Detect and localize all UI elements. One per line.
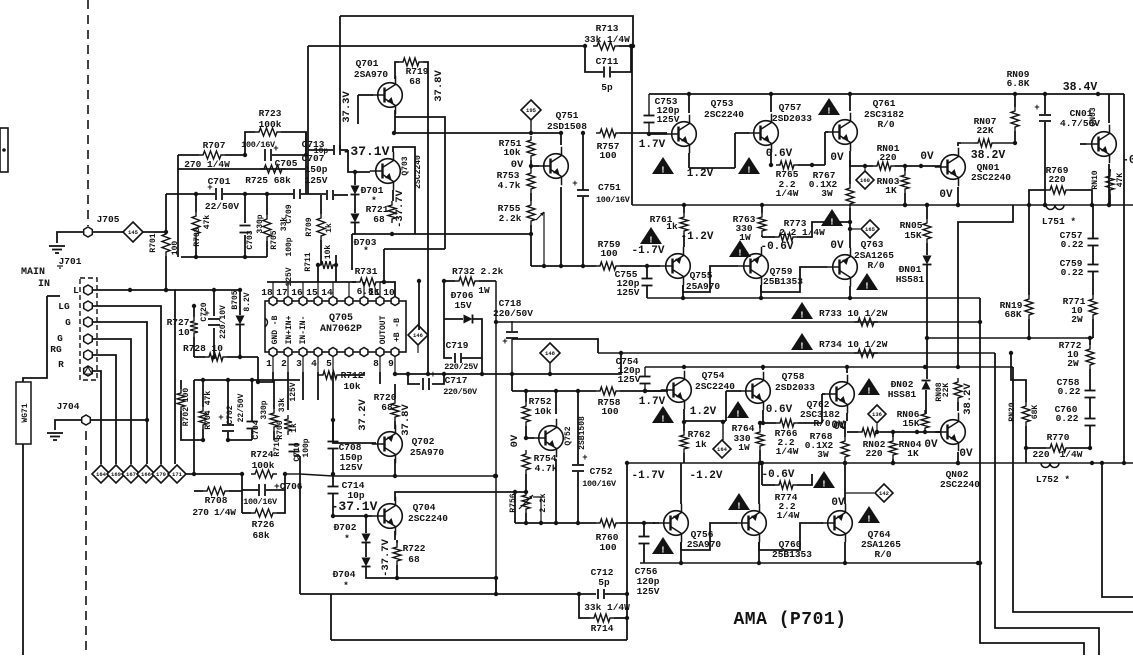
wire q704 bottom link xyxy=(495,578,497,594)
wire RN05 net xyxy=(925,203,929,255)
svg-text:+: + xyxy=(1034,103,1039,113)
svg-text:-37.1V: -37.1V xyxy=(331,499,378,514)
svg-text:15K: 15K xyxy=(904,230,921,241)
diode DN01 xyxy=(896,256,932,286)
svg-text:33k: 33k xyxy=(278,398,287,413)
warning triangle B2 xyxy=(727,401,749,420)
wire R-network right xyxy=(242,472,300,513)
svg-text:15V: 15V xyxy=(454,300,471,311)
wire pins bottom stubs xyxy=(273,356,395,374)
wire R762 net xyxy=(682,420,686,463)
wire net322 xyxy=(496,298,982,324)
svg-text:0V: 0V xyxy=(831,420,845,432)
wire Q763 emitter col xyxy=(848,286,852,300)
svg-text:C719: C719 xyxy=(446,340,469,351)
capacitor C752 xyxy=(572,453,617,489)
svg-text:47k: 47k xyxy=(203,215,212,230)
wire C712 right xyxy=(605,592,629,596)
wire mid rail 169 xyxy=(178,168,306,170)
svg-text:1K: 1K xyxy=(907,448,919,459)
node 146 xyxy=(408,325,428,353)
svg-text:0.22: 0.22 xyxy=(1056,413,1079,424)
wire Q754 collector xyxy=(683,367,685,369)
svg-text:125V: 125V xyxy=(340,462,363,473)
svg-text:R702 100: R702 100 xyxy=(182,388,191,427)
svg-text:15: 15 xyxy=(306,287,318,298)
capacitor C751 xyxy=(572,179,631,205)
svg-text:!: ! xyxy=(829,218,834,228)
capacitor C701 xyxy=(205,176,240,212)
transistor Q701 xyxy=(354,58,402,114)
wire CN01 net xyxy=(1043,95,1047,207)
wire R766 right xyxy=(798,422,822,424)
wire net298 xyxy=(647,296,980,300)
warning triangle A1 xyxy=(652,157,674,176)
wire R728 net xyxy=(194,356,258,358)
diode D702 xyxy=(334,522,371,544)
wire RN04 net xyxy=(891,432,895,465)
label 37.8V lower xyxy=(400,404,412,436)
svg-text:+B -B: +B -B xyxy=(393,318,402,342)
wire net594 left rise xyxy=(294,456,300,594)
wire RN10 net xyxy=(1109,169,1111,205)
resistor R728 xyxy=(183,343,227,361)
wire R771 net xyxy=(1092,319,1094,338)
svg-text:C752: C752 xyxy=(590,466,613,477)
resistor RN20 xyxy=(1008,402,1040,426)
svg-text:!: ! xyxy=(821,480,826,490)
pin R xyxy=(58,359,92,376)
node 195 xyxy=(521,100,541,133)
resistor R719 xyxy=(399,58,429,87)
resistor R726 xyxy=(251,509,277,541)
svg-text:IN: IN xyxy=(38,279,50,290)
label RN08 22K xyxy=(942,383,951,398)
svg-text:IN-IN-: IN-IN- xyxy=(299,316,308,345)
transistor Q703 xyxy=(370,152,423,191)
svg-text:1: 1 xyxy=(266,358,272,369)
wire Q764 collector xyxy=(843,542,847,565)
svg-text:R714: R714 xyxy=(591,623,614,634)
svg-text:37.8V: 37.8V xyxy=(400,404,412,436)
wire Q764 base xyxy=(759,523,823,550)
svg-text:220/50V: 220/50V xyxy=(443,387,478,397)
capacitor C713 xyxy=(302,139,340,156)
wire D702 col xyxy=(364,514,368,533)
wire rail 476 xyxy=(300,474,495,476)
svg-text:!: ! xyxy=(660,546,665,556)
warning triangle A3 xyxy=(818,98,840,117)
wire DN02 net xyxy=(925,390,927,414)
svg-text:1.2V: 1.2V xyxy=(690,406,717,418)
resistor R724 xyxy=(251,449,277,478)
svg-text:Q752: Q752 xyxy=(564,426,573,445)
capacitor C755 xyxy=(615,269,653,298)
svg-text:-1.7V: -1.7V xyxy=(631,470,664,482)
svg-text:220/25V: 220/25V xyxy=(444,362,479,372)
svg-text:+: + xyxy=(430,370,435,380)
wire left drop to R731 xyxy=(352,234,355,270)
resistor R754 xyxy=(522,450,558,474)
svg-text:169: 169 xyxy=(111,471,121,478)
svg-text:RG: RG xyxy=(50,344,62,355)
resistor RN02 xyxy=(858,428,886,459)
svg-text:68K: 68K xyxy=(1004,309,1021,320)
ground at J704 xyxy=(47,433,63,440)
wire dashed bus line lower xyxy=(85,431,87,655)
transistor Q760 xyxy=(736,504,813,560)
svg-text:C717: C717 xyxy=(445,375,468,386)
svg-text:22/50V: 22/50V xyxy=(205,201,240,212)
wire B705 net xyxy=(238,288,242,359)
label 1.7V upper xyxy=(639,139,666,151)
wire R774 net xyxy=(760,461,812,485)
resistor R734 xyxy=(819,339,888,357)
svg-text:Q753: Q753 xyxy=(711,98,734,109)
transistor Q752 xyxy=(533,416,587,457)
svg-text:!: ! xyxy=(735,410,740,420)
wire J704 right xyxy=(91,418,149,422)
svg-text:25B1353: 25B1353 xyxy=(763,276,803,287)
wire net339 xyxy=(512,339,598,353)
svg-text:+: + xyxy=(207,183,212,193)
wire Q762 base xyxy=(822,394,825,423)
wire C752 net xyxy=(576,391,580,525)
svg-text:GND -B: GND -B xyxy=(271,315,280,344)
wire J704 left xyxy=(55,420,81,430)
svg-text:-37.1V: -37.1V xyxy=(343,144,390,159)
diode B705 zener xyxy=(231,290,252,324)
svg-text:Q704: Q704 xyxy=(413,502,436,513)
wire Q704 collector xyxy=(395,490,528,501)
capacitor C753 xyxy=(644,94,680,136)
label 0V q751 xyxy=(511,159,524,171)
warning triangle B3 xyxy=(858,378,880,397)
svg-text:-1.2V: -1.2V xyxy=(689,470,722,482)
wire net338 xyxy=(927,336,1093,340)
wire right vert 1124 xyxy=(1123,94,1125,463)
warning triangle B4 xyxy=(652,537,674,556)
label 0V q762 xyxy=(833,421,847,433)
svg-text:171: 171 xyxy=(172,471,183,478)
svg-text:R: R xyxy=(58,359,64,370)
pin G xyxy=(65,317,92,328)
wire filter2 frame xyxy=(181,378,274,442)
wire DN01 bottom xyxy=(925,265,929,379)
svg-text:125V: 125V xyxy=(285,267,294,286)
warning triangle R733 xyxy=(791,302,813,321)
svg-text:J701: J701 xyxy=(59,256,82,267)
pin row top U705 xyxy=(261,287,399,306)
wire C709 right xyxy=(301,193,326,195)
wire C708 net xyxy=(331,420,335,476)
wire R714 loop xyxy=(579,594,629,620)
svg-text:!: ! xyxy=(746,166,751,176)
transistor Q753 xyxy=(666,98,745,153)
resistor RN09 xyxy=(1007,69,1030,131)
resistor R708 xyxy=(192,487,236,518)
warning triangle A4 xyxy=(640,227,662,246)
svg-text:142: 142 xyxy=(879,490,889,497)
wire R722 bot xyxy=(396,565,398,578)
svg-text:R708: R708 xyxy=(205,495,228,506)
svg-text:160: 160 xyxy=(860,177,870,184)
wire R761 net xyxy=(682,203,686,247)
svg-text:2SD2033: 2SD2033 xyxy=(775,382,815,393)
capacitor C756 xyxy=(635,537,660,598)
wire Q763 base xyxy=(761,267,827,292)
resistor R723 xyxy=(255,108,282,136)
resistor R760 xyxy=(596,519,620,553)
wire Q702 emitter xyxy=(393,459,397,478)
diode D703 xyxy=(351,214,377,257)
svg-text:145: 145 xyxy=(128,229,139,236)
label 125V pin3 xyxy=(289,382,298,401)
svg-text:47k: 47k xyxy=(204,391,213,406)
wire R768 net xyxy=(843,421,847,493)
node 169 xyxy=(107,465,125,483)
resistor R769 xyxy=(1046,165,1070,194)
svg-text:2SA970: 2SA970 xyxy=(687,539,722,550)
svg-text:68: 68 xyxy=(373,214,385,225)
pin row bottom U705 xyxy=(266,348,399,370)
wire off-page connector box xyxy=(0,128,8,172)
wire C714 net xyxy=(331,476,335,518)
label Q751 xyxy=(547,110,587,132)
wire feedback drop bottom xyxy=(625,461,629,640)
resistor R714 xyxy=(584,602,630,634)
svg-text:125V: 125V xyxy=(617,287,640,298)
node 170 xyxy=(152,465,170,483)
label 38.4V xyxy=(1063,81,1098,94)
svg-text:!: ! xyxy=(864,282,869,292)
transistor QN02 xyxy=(935,413,973,460)
resistor R767 xyxy=(809,170,854,208)
capacitor C711 xyxy=(596,56,619,93)
wire L stub xyxy=(47,295,60,297)
warning triangle B5 xyxy=(728,493,750,512)
wire Q762 collector xyxy=(846,367,848,373)
svg-text:2W: 2W xyxy=(1071,314,1083,325)
wire Q761 base xyxy=(825,132,828,165)
svg-text:68: 68 xyxy=(408,554,420,565)
label -0.7 right xyxy=(1122,154,1133,167)
warning triangle A6 xyxy=(821,209,843,228)
svg-text:4: 4 xyxy=(311,358,317,369)
wire jog under Q703 xyxy=(382,234,445,284)
svg-text:10p: 10p xyxy=(314,147,329,156)
wire C757 net xyxy=(1092,205,1094,264)
transistor Q761 xyxy=(827,98,905,151)
resistor R727 xyxy=(167,317,198,338)
svg-text:220: 220 xyxy=(879,152,896,163)
svg-text:!: ! xyxy=(866,515,871,525)
svg-text:146: 146 xyxy=(413,332,423,339)
wire Q704 box bottom xyxy=(366,567,495,580)
wire Q751 base xyxy=(531,165,539,167)
svg-text:R725 68k: R725 68k xyxy=(245,175,291,186)
svg-text:0V: 0V xyxy=(924,439,938,451)
svg-text:!: ! xyxy=(799,311,804,321)
wire R711 net xyxy=(318,255,336,282)
resistor R721 xyxy=(366,201,396,225)
wire C701 rail left xyxy=(164,194,168,234)
wire q702 base col xyxy=(331,372,376,443)
wire QN02 emitter xyxy=(956,452,960,465)
svg-text:R770: R770 xyxy=(1047,432,1070,443)
svg-text:10k: 10k xyxy=(534,406,551,417)
label 0V qn01 xyxy=(920,151,934,163)
svg-text:4.7k: 4.7k xyxy=(498,180,521,191)
wire C751 net xyxy=(581,133,585,268)
resistor RN19 xyxy=(1000,295,1033,320)
wire Q760 collector xyxy=(757,542,761,565)
resistor R709 xyxy=(305,214,334,240)
wire Q759 collector xyxy=(759,285,763,300)
resistor RN06 xyxy=(897,409,929,432)
svg-text:R706: R706 xyxy=(276,420,285,439)
resistor R706 xyxy=(270,398,287,440)
warning triangle B7 xyxy=(858,506,880,525)
label 0V q763 xyxy=(830,240,844,252)
wire corner 1 xyxy=(978,322,1084,655)
wire R763 net xyxy=(760,203,764,237)
wire R756 net xyxy=(524,497,543,525)
resistor R732 xyxy=(452,266,504,296)
resistor R711 xyxy=(304,245,337,272)
node 171 xyxy=(168,465,186,483)
svg-text:J705: J705 xyxy=(97,214,120,225)
label QN02 xyxy=(940,469,980,490)
wire R732 wire xyxy=(444,280,496,282)
transistor Q704 xyxy=(372,497,449,536)
wire D701-D703 xyxy=(354,172,356,213)
svg-text:11: 11 xyxy=(368,287,380,298)
svg-text:37.2V: 37.2V xyxy=(357,399,369,431)
wire 258 drop xyxy=(256,357,260,384)
svg-text:1/4W: 1/4W xyxy=(1060,449,1083,460)
capacitor C760 xyxy=(1055,404,1096,426)
svg-text:68: 68 xyxy=(409,76,421,87)
transistor Q751 xyxy=(538,147,569,186)
wire D706 box xyxy=(444,292,484,376)
svg-text:14: 14 xyxy=(321,287,333,298)
capacitor C706 xyxy=(243,481,303,507)
wire net594 xyxy=(300,592,596,596)
wire Q753 emitter xyxy=(689,153,735,168)
node 167 xyxy=(122,465,140,483)
wire pin2 col xyxy=(287,372,289,410)
resistor R702 xyxy=(177,388,191,427)
transistor Q762 xyxy=(800,375,854,429)
wire net640 left drop xyxy=(330,594,332,640)
svg-text:R704: R704 xyxy=(204,410,213,429)
resistor R772 xyxy=(1059,340,1094,369)
wire Q758 emitter xyxy=(761,410,776,425)
svg-text:0V: 0V xyxy=(831,497,845,509)
resistor R701 xyxy=(149,230,180,256)
warning triangle A7 xyxy=(856,273,878,292)
transistor QN01 xyxy=(935,116,997,186)
svg-text:R713: R713 xyxy=(596,23,619,34)
svg-text:R705: R705 xyxy=(270,230,279,249)
wire Q758 collector xyxy=(762,367,764,370)
svg-text:100k: 100k xyxy=(259,119,282,130)
svg-text:R711: R711 xyxy=(304,252,313,271)
svg-text:2SC2240: 2SC2240 xyxy=(408,513,448,524)
svg-text:2: 2 xyxy=(281,358,287,369)
wire Q757 collector xyxy=(770,94,772,112)
resistor RN08 xyxy=(935,378,962,402)
transistor Q702 xyxy=(372,425,445,464)
svg-text:220: 220 xyxy=(865,448,882,459)
resistor RN05 xyxy=(900,219,931,243)
wire mid rail 205 xyxy=(632,203,1133,207)
connector WG71 xyxy=(16,382,31,444)
svg-text:B705: B705 xyxy=(231,290,240,309)
inductor L751 xyxy=(1042,205,1076,227)
wire Q752 collector xyxy=(554,389,558,414)
svg-text:1.7V: 1.7V xyxy=(639,139,666,151)
wire R731 ends xyxy=(352,282,395,296)
wire Q755 base xyxy=(655,265,660,267)
node 160 xyxy=(856,164,874,189)
wire C755 net xyxy=(645,264,649,298)
wire R720 net xyxy=(394,384,396,429)
svg-text:1k: 1k xyxy=(325,223,334,233)
transistor Q763 xyxy=(827,239,895,286)
svg-text:10k: 10k xyxy=(503,147,520,158)
wire QN03 base xyxy=(1080,143,1086,145)
transistor Q764 xyxy=(822,504,902,560)
capacitor C707 xyxy=(327,190,333,200)
wire R754 net xyxy=(525,450,527,490)
svg-text:IN+IN+: IN+IN+ xyxy=(285,315,294,344)
svg-text:R/0: R/0 xyxy=(877,119,894,130)
resistor RN10 xyxy=(1091,170,1125,194)
svg-text:5p: 5p xyxy=(598,577,610,588)
svg-text:148: 148 xyxy=(545,350,556,357)
node 136 xyxy=(868,405,886,434)
resistor R733 xyxy=(819,308,888,326)
svg-text:OUTOUT: OUTOUT xyxy=(379,315,388,344)
svg-text:17: 17 xyxy=(276,287,288,298)
wire C701 rail xyxy=(166,192,293,196)
node 164 xyxy=(92,465,110,483)
svg-text:15K: 15K xyxy=(902,418,919,429)
svg-text:2SD1508: 2SD1508 xyxy=(547,121,587,132)
wire R755 wiper xyxy=(542,212,546,268)
svg-text:+: + xyxy=(572,179,577,189)
svg-text:*: * xyxy=(343,580,349,591)
svg-text:R731: R731 xyxy=(355,266,378,277)
svg-text:2.2k: 2.2k xyxy=(539,493,548,512)
wire R719 loop xyxy=(395,62,430,376)
svg-text:100: 100 xyxy=(599,542,616,553)
svg-text:R734 10 1/2W: R734 10 1/2W xyxy=(819,339,888,350)
wire Q751 collector xyxy=(559,131,563,145)
svg-text:-37.7V: -37.7V xyxy=(394,189,406,228)
ground at J705 xyxy=(49,246,65,253)
svg-text:G: G xyxy=(65,317,71,328)
wire R75x column xyxy=(529,160,533,266)
resistor R756 xyxy=(509,491,548,513)
wire Q753 collector xyxy=(688,94,690,113)
wire feedback drop top xyxy=(631,46,633,205)
capacitor C704 xyxy=(247,400,270,439)
capacitor C714 xyxy=(328,480,365,501)
wire Q756 collector xyxy=(679,542,683,565)
